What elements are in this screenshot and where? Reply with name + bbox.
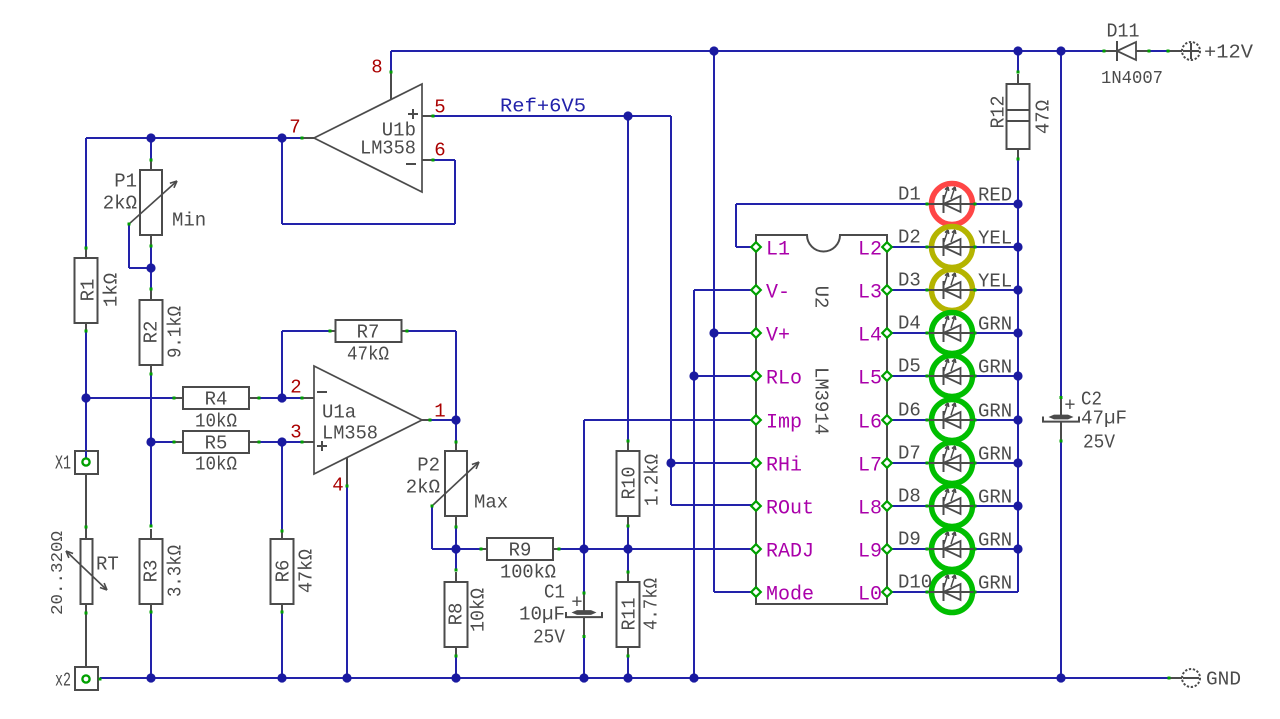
svg-text:2kΩ: 2kΩ	[406, 477, 440, 499]
svg-text:GRN: GRN	[978, 444, 1012, 466]
svg-text:L6: L6	[858, 411, 882, 434]
svg-text:R10: R10	[619, 467, 641, 500]
svg-text:+: +	[571, 592, 582, 614]
svg-text:L4: L4	[858, 324, 882, 347]
svg-text:V-: V-	[766, 281, 790, 304]
svg-text:x2: x2	[55, 670, 71, 692]
svg-text:1kΩ: 1kΩ	[101, 273, 123, 307]
svg-text:47kΩ: 47kΩ	[347, 344, 389, 366]
svg-text:GRN: GRN	[978, 573, 1012, 595]
svg-text:2: 2	[290, 377, 301, 399]
svg-text:Max: Max	[474, 492, 508, 514]
svg-text:L7: L7	[858, 454, 882, 477]
svg-text:GRN: GRN	[978, 401, 1012, 423]
svg-text:Imp: Imp	[766, 411, 802, 434]
svg-text:U2: U2	[809, 286, 831, 309]
svg-text:RADJ: RADJ	[766, 540, 814, 563]
svg-text:4.7kΩ: 4.7kΩ	[641, 578, 663, 630]
svg-text:D2: D2	[898, 227, 921, 249]
svg-text:R7: R7	[357, 322, 380, 344]
svg-text:YEL: YEL	[978, 228, 1012, 250]
svg-text:RHi: RHi	[766, 454, 802, 477]
svg-text:20..320Ω: 20..320Ω	[49, 531, 68, 615]
svg-text:9.1kΩ: 9.1kΩ	[165, 306, 187, 358]
svg-text:25V: 25V	[533, 627, 566, 649]
svg-text:GRN: GRN	[978, 357, 1012, 379]
svg-text:R1: R1	[78, 279, 100, 302]
svg-text:RT: RT	[96, 554, 119, 576]
svg-text:R3: R3	[141, 560, 163, 583]
svg-text:GRN: GRN	[978, 487, 1012, 509]
svg-text:10kΩ: 10kΩ	[195, 454, 237, 476]
svg-text:C1: C1	[544, 582, 565, 604]
svg-text:R8: R8	[446, 603, 468, 626]
svg-text:Ref+6V5: Ref+6V5	[500, 96, 586, 118]
svg-text:4: 4	[332, 475, 343, 497]
svg-text:R5: R5	[205, 433, 228, 455]
svg-text:L3: L3	[858, 281, 882, 304]
svg-text:47kΩ: 47kΩ	[296, 549, 318, 593]
svg-text:D4: D4	[898, 313, 921, 335]
svg-text:L8: L8	[858, 497, 882, 520]
svg-text:2kΩ: 2kΩ	[103, 193, 137, 215]
svg-text:+12V: +12V	[1204, 42, 1254, 64]
svg-text:ROut: ROut	[766, 497, 814, 520]
svg-text:D7: D7	[898, 443, 921, 465]
svg-text:D9: D9	[898, 529, 921, 551]
svg-text:10µF: 10µF	[519, 604, 565, 626]
svg-text:10kΩ: 10kΩ	[468, 588, 490, 632]
svg-text:RED: RED	[978, 185, 1012, 207]
svg-text:7: 7	[289, 117, 300, 139]
svg-text:D8: D8	[898, 486, 921, 508]
svg-text:RLo: RLo	[766, 367, 802, 390]
svg-text:L5: L5	[858, 367, 882, 390]
svg-text:10kΩ: 10kΩ	[195, 411, 237, 433]
svg-text:1: 1	[434, 401, 445, 423]
svg-text:3.3kΩ: 3.3kΩ	[165, 545, 187, 597]
svg-text:LM358: LM358	[360, 138, 416, 160]
svg-text:6: 6	[434, 140, 445, 162]
svg-text:R4: R4	[205, 389, 228, 411]
svg-text:L9: L9	[858, 540, 882, 563]
svg-text:D5: D5	[898, 356, 921, 378]
svg-text:V+: V+	[766, 324, 790, 347]
svg-text:X1: X1	[55, 453, 71, 475]
svg-text:L1: L1	[766, 238, 790, 261]
svg-text:+: +	[1064, 395, 1075, 417]
svg-text:P1: P1	[114, 171, 137, 193]
svg-text:R2: R2	[141, 321, 163, 344]
svg-text:D1: D1	[898, 184, 921, 206]
svg-text:25V: 25V	[1083, 432, 1116, 454]
svg-text:L0: L0	[858, 583, 882, 606]
svg-text:LM358: LM358	[322, 423, 378, 445]
svg-text:R6: R6	[273, 560, 295, 583]
svg-text:R12: R12	[988, 96, 1010, 129]
svg-text:1.2kΩ: 1.2kΩ	[642, 454, 664, 506]
svg-text:D3: D3	[898, 270, 921, 292]
svg-text:47Ω: 47Ω	[1033, 100, 1055, 134]
svg-text:47µF: 47µF	[1081, 408, 1127, 430]
svg-text:GRN: GRN	[978, 530, 1012, 552]
svg-text:D10: D10	[898, 572, 932, 594]
svg-text:LM3914: LM3914	[809, 367, 831, 435]
svg-text:R11: R11	[619, 598, 641, 631]
svg-text:R9: R9	[509, 540, 532, 562]
svg-text:Mode: Mode	[766, 583, 814, 606]
svg-text:1N4007: 1N4007	[1101, 69, 1163, 89]
svg-text:P2: P2	[417, 455, 440, 477]
svg-text:100kΩ: 100kΩ	[500, 562, 556, 584]
svg-text:Min: Min	[172, 210, 206, 232]
svg-text:U1a: U1a	[322, 402, 356, 424]
svg-text:L2: L2	[858, 238, 882, 261]
svg-text:3: 3	[290, 422, 301, 444]
svg-text:8: 8	[371, 57, 382, 79]
svg-text:D6: D6	[898, 400, 921, 422]
svg-text:D11: D11	[1107, 21, 1140, 43]
svg-text:YEL: YEL	[978, 271, 1012, 293]
svg-text:GND: GND	[1206, 669, 1241, 691]
svg-text:5: 5	[434, 97, 445, 119]
svg-text:GRN: GRN	[978, 314, 1012, 336]
